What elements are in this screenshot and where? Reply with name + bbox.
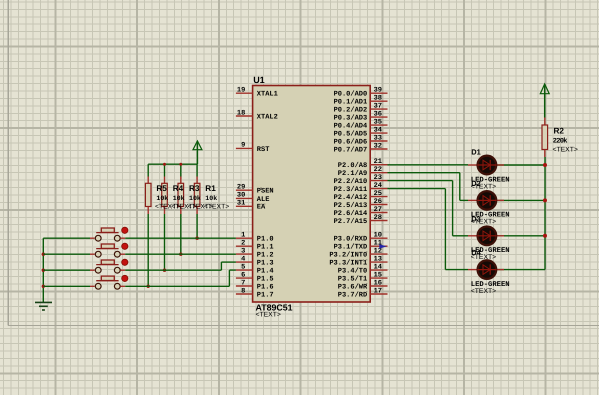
svg-text:P1.1: P1.1 <box>257 244 274 252</box>
LED D1 LED-GREEN <box>468 148 510 191</box>
junction dots on LED rail <box>543 163 547 167</box>
power terminal VCC (right) <box>540 84 549 118</box>
pin 3 P1.2 <box>236 247 274 259</box>
svg-text:P2.1/A9: P2.1/A9 <box>338 169 367 178</box>
svg-text:14: 14 <box>374 263 382 271</box>
svg-text:P1.0: P1.0 <box>257 236 274 244</box>
wire ground bus vertical <box>42 238 44 302</box>
svg-text:10k: 10k <box>156 195 168 202</box>
wire R3 bottom to row <box>180 214 182 254</box>
pin 28 P2.7/A15 <box>334 214 388 226</box>
svg-text:P0.7/AD7: P0.7/AD7 <box>334 145 368 154</box>
pin 37 P0.2/AD2 <box>334 102 388 114</box>
svg-text:R2: R2 <box>554 127 565 136</box>
svg-text:3: 3 <box>241 247 245 255</box>
pin 30 ALE <box>236 192 270 204</box>
wire switch4 to pin5 P1.4 <box>125 285 229 287</box>
pin 5 P1.4 <box>236 263 274 275</box>
svg-text:16: 16 <box>374 279 382 287</box>
pin 17 P3.7/RD <box>338 287 388 299</box>
svg-text:D1: D1 <box>471 148 480 157</box>
svg-text:39: 39 <box>374 87 382 95</box>
svg-text:P0.5/AD5: P0.5/AD5 <box>334 130 368 139</box>
wire VCC rail drop to R1 <box>196 164 198 176</box>
wire R5 bottom to row <box>147 214 149 286</box>
wire VCC rail drop to R3 <box>180 164 182 176</box>
svg-text:P1.2: P1.2 <box>257 252 274 260</box>
pin 38 P0.1/AD1 <box>334 95 388 107</box>
resistor R5 10k body <box>145 177 151 215</box>
svg-text:10: 10 <box>374 232 382 240</box>
svg-text:P0.1/AD1: P0.1/AD1 <box>334 98 368 107</box>
svg-text:P3.6/WR: P3.6/WR <box>338 282 368 291</box>
pin 31 EA <box>236 200 266 212</box>
svg-text:ALE: ALE <box>257 196 270 204</box>
switch SW4 push button <box>90 275 128 289</box>
pin 6 P1.5 <box>236 271 274 283</box>
IC U1 AT89C51 microcontroller body <box>253 86 371 303</box>
LED D3 LED-GREEN <box>468 214 510 261</box>
pin 1 P1.0 <box>236 232 274 244</box>
wire ground bus to switch 1 <box>43 237 90 239</box>
junction dots resistor bottoms <box>147 285 150 288</box>
pin 9 RST <box>236 142 270 154</box>
svg-text:P2.5/A13: P2.5/A13 <box>334 201 368 210</box>
svg-text:P1.3: P1.3 <box>257 260 274 268</box>
svg-text:P0.4/AD4: P0.4/AD4 <box>334 122 368 131</box>
pin 8 P1.7 <box>236 287 274 299</box>
svg-text:8: 8 <box>241 287 245 295</box>
pin 12 P3.2/INT0 <box>329 247 387 259</box>
svg-text:P3.2/INT0: P3.2/INT0 <box>329 251 367 260</box>
svg-text:23: 23 <box>374 174 382 182</box>
wire pin21 P2.0 to LED D1 <box>388 164 469 166</box>
wire switch3 to pin4 P1.3 <box>125 269 221 271</box>
svg-text:26: 26 <box>374 198 382 206</box>
svg-text:P1.7: P1.7 <box>257 291 274 299</box>
junction dots on VCC rail <box>163 163 166 166</box>
pin 13 P3.3/INT1 <box>329 255 387 267</box>
svg-text:18: 18 <box>237 109 245 117</box>
svg-text:P3.7/RD: P3.7/RD <box>338 290 367 299</box>
wire ground bus to switch 2 <box>43 253 90 255</box>
pin 33 P0.6/AD6 <box>334 134 388 146</box>
wire switch1 to pin1 P1.0 <box>125 237 236 239</box>
pin 26 P2.5/A13 <box>334 198 388 210</box>
power terminal VCC (left) <box>193 141 202 164</box>
LED D2 LED-GREEN <box>468 179 510 226</box>
svg-text:4: 4 <box>241 255 245 263</box>
pin 14 P3.4/T0 <box>338 263 388 275</box>
svg-text:17: 17 <box>374 287 382 295</box>
svg-text:27: 27 <box>374 206 382 214</box>
svg-text:D2: D2 <box>471 179 480 188</box>
svg-text:R5: R5 <box>156 184 167 193</box>
svg-text:7: 7 <box>241 279 245 287</box>
pin 36 P0.3/AD3 <box>334 110 388 122</box>
LED D4 LED-GREEN <box>468 248 510 295</box>
svg-text:30: 30 <box>237 192 245 200</box>
svg-text:P0.2/AD2: P0.2/AD2 <box>334 106 368 115</box>
svg-text:P3.3/INT1: P3.3/INT1 <box>329 259 367 268</box>
wire R4 bottom to row <box>164 214 166 270</box>
sheet border bottom edge <box>8 325 599 327</box>
switch SW1 push button <box>90 227 128 241</box>
svg-text:XTAL1: XTAL1 <box>257 91 278 99</box>
junction dots on ground bus <box>42 253 45 256</box>
wire LED row 270 to rail <box>497 269 545 271</box>
sheet border left edge <box>7 0 9 326</box>
pin 18 XTAL2 <box>236 109 278 121</box>
svg-text:RST: RST <box>257 146 270 154</box>
ground symbol <box>35 302 52 310</box>
svg-text:33: 33 <box>374 134 382 142</box>
wire LED row 165 to rail <box>497 164 545 166</box>
svg-text:P2.3/A11: P2.3/A11 <box>334 185 368 194</box>
svg-text:13: 13 <box>374 255 382 263</box>
svg-text:XTAL2: XTAL2 <box>257 113 278 121</box>
svg-text:R1: R1 <box>205 184 216 193</box>
switch SW3 push button <box>90 259 128 273</box>
svg-text:21: 21 <box>374 158 382 166</box>
svg-text:P2.2/A10: P2.2/A10 <box>334 177 368 186</box>
svg-text:10k: 10k <box>173 195 185 202</box>
svg-text:PSEN: PSEN <box>257 188 274 196</box>
svg-text:25: 25 <box>374 190 382 198</box>
pin 11 P3.1/TXD <box>334 240 388 252</box>
svg-text:D4: D4 <box>471 248 481 257</box>
svg-text:31: 31 <box>237 200 245 208</box>
svg-text:38: 38 <box>374 95 382 103</box>
svg-text:35: 35 <box>374 118 382 126</box>
svg-text:24: 24 <box>374 182 382 190</box>
terminal arrow (blue) at pin 11 P3.1 <box>379 244 387 249</box>
svg-text:37: 37 <box>374 102 382 110</box>
svg-text:U1: U1 <box>253 75 265 85</box>
pin 22 P2.1/A9 <box>338 166 388 178</box>
svg-text:D3: D3 <box>471 214 480 223</box>
svg-text:P1.6: P1.6 <box>257 283 274 291</box>
svg-text:5: 5 <box>241 263 245 271</box>
wire LED row 236 to rail <box>497 235 545 237</box>
svg-text:9: 9 <box>241 142 245 150</box>
wire VCC rail drop to R4 <box>164 164 166 176</box>
svg-text:P2.7/A15: P2.7/A15 <box>334 217 368 226</box>
pin 16 P3.6/WR <box>338 279 388 291</box>
wire R2 bottom rail to LED anodes <box>544 157 546 270</box>
pin 21 P2.0/A8 <box>338 158 388 170</box>
svg-text:P3.4/T0: P3.4/T0 <box>338 267 367 276</box>
svg-text:28: 28 <box>374 214 382 222</box>
pin 35 P0.4/AD4 <box>334 118 388 130</box>
svg-text:1: 1 <box>241 232 245 240</box>
svg-text:<TEXT>: <TEXT> <box>256 312 281 319</box>
svg-text:P2.4/A12: P2.4/A12 <box>334 193 368 202</box>
svg-text:R4: R4 <box>173 184 184 193</box>
pin 23 P2.2/A10 <box>334 174 388 186</box>
pin 19 XTAL1 <box>236 87 278 99</box>
resistor R2 220k <box>542 118 578 158</box>
label R1 10k <box>204 184 229 211</box>
pin 2 P1.1 <box>236 240 274 252</box>
svg-text:P1.5: P1.5 <box>257 275 274 283</box>
svg-text:15: 15 <box>374 271 382 279</box>
svg-text:220k: 220k <box>553 136 568 145</box>
svg-text:12: 12 <box>374 247 382 255</box>
svg-text:EA: EA <box>257 204 266 212</box>
svg-text:22: 22 <box>374 166 382 174</box>
wire VCC rail drop to R5 <box>147 164 149 176</box>
resistor R1 10k body <box>194 177 200 215</box>
svg-text:29: 29 <box>237 184 245 192</box>
svg-text:P3.1/TXD: P3.1/TXD <box>334 243 368 252</box>
svg-text:6: 6 <box>241 271 245 279</box>
svg-text:34: 34 <box>374 126 382 134</box>
svg-text:P1.4: P1.4 <box>257 268 274 276</box>
svg-text:P3.5/T1: P3.5/T1 <box>338 274 367 283</box>
switch SW2 push button <box>90 243 128 257</box>
pin 32 P0.7/AD7 <box>334 142 388 154</box>
pin 29 PSEN <box>236 184 274 196</box>
pin 25 P2.4/A12 <box>334 190 388 202</box>
pin 15 P3.5/T1 <box>338 271 388 283</box>
svg-text:19: 19 <box>237 87 245 95</box>
svg-text:<TEXT>: <TEXT> <box>204 204 229 211</box>
label R4 10k <box>171 184 196 211</box>
wire pin22 P2.1 to LED D2 <box>388 172 460 174</box>
svg-text:36: 36 <box>374 110 382 118</box>
wire VCC rail to resistor tops <box>148 163 197 165</box>
svg-text:10k: 10k <box>189 195 201 202</box>
svg-text:10k: 10k <box>205 195 217 202</box>
resistor R3 10k body <box>178 177 184 215</box>
pin 39 P0.0/AD0 <box>334 87 388 99</box>
svg-text:P2.0/A8: P2.0/A8 <box>338 161 367 170</box>
pin 27 P2.6/A14 <box>334 206 388 218</box>
svg-text:<TEXT>: <TEXT> <box>553 147 578 154</box>
svg-text:2: 2 <box>241 240 245 248</box>
pin 7 P1.6 <box>236 279 274 291</box>
wire LED row 200 to rail <box>497 199 545 201</box>
pin 10 P3.0/RXD <box>334 232 388 244</box>
wire pin23 P2.2 to LED D3 <box>388 180 453 182</box>
pin 24 P2.3/A11 <box>334 182 388 194</box>
label R3 10k <box>188 184 213 211</box>
svg-text:P0.3/AD3: P0.3/AD3 <box>334 114 368 123</box>
svg-text:P0.0/AD0: P0.0/AD0 <box>334 90 368 99</box>
wire ground bus to switch 4 <box>43 285 90 287</box>
wire pin24 P2.3 to LED D4 <box>388 188 446 190</box>
label R5 10k <box>155 184 180 211</box>
resistor R4 10k body <box>162 177 168 215</box>
svg-text:R3: R3 <box>189 184 200 193</box>
pin 34 P0.5/AD5 <box>334 126 388 138</box>
svg-text:32: 32 <box>374 142 382 150</box>
svg-text:<TEXT>: <TEXT> <box>471 288 496 295</box>
pin 4 P1.3 <box>236 255 274 267</box>
svg-text:P0.6/AD6: P0.6/AD6 <box>334 137 368 146</box>
svg-text:P2.6/A14: P2.6/A14 <box>334 209 368 218</box>
svg-text:P3.0/RXD: P3.0/RXD <box>334 235 368 244</box>
wire R1 bottom to row <box>196 214 198 238</box>
wire switch2 to pin3 P1.2 <box>125 253 236 255</box>
wire ground bus to switch 3 <box>43 269 90 271</box>
